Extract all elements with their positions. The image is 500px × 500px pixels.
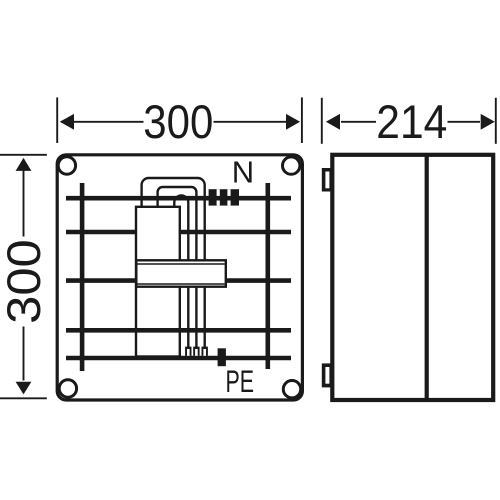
mounting hole bottom-left — [59, 380, 76, 397]
enclosure side view outline — [332, 155, 493, 400]
arrowhead left of 214 dim — [326, 114, 340, 130]
hinge tab upper (side view) — [322, 168, 333, 192]
busbar 3 (under crossbar) — [66, 278, 291, 283]
enclosure front view outline — [57, 155, 302, 400]
arrowhead up of vertical 300 dim — [16, 158, 32, 171]
dimension line 214 — [341, 121, 376, 123]
dimension extension line top of vertical 300 dim — [0, 154, 47, 156]
crossbar inner line bottom — [138, 283, 225, 285]
terminal block N (hatched) — [209, 189, 239, 205]
svg-text:214: 214 — [376, 95, 447, 148]
hinge tab lower (side view) — [322, 363, 333, 387]
terminal PE (black block) — [218, 348, 226, 366]
arrowhead down of vertical 300 dim — [16, 382, 32, 395]
crossbar plate (white over busbar 3 and cables) — [136, 260, 226, 286]
dimension extension line bottom of vertical 300 dim — [0, 397, 47, 399]
mounting hole top-left — [58, 157, 75, 174]
mounting hole bottom-right — [283, 381, 300, 398]
dimension extension line left of top 300 dim — [56, 97, 58, 143]
busbar 5 PE (over device body bottom) — [66, 356, 291, 361]
arrowhead left of 300 dim — [60, 114, 74, 130]
busbar 1 N (over loops) — [66, 196, 291, 201]
crossbar inner line top — [138, 263, 225, 265]
cable end pin 2 — [193, 347, 199, 356]
busbar support left vertical — [80, 183, 85, 371]
mounting hole top-right — [283, 157, 300, 174]
arrowhead right of 214 dim — [481, 114, 495, 130]
side view divider line (lid joint) — [425, 155, 429, 400]
cable end pin 3 — [202, 347, 208, 356]
busbar support right vertical — [265, 183, 270, 369]
dimension line 300 horizontal — [61, 121, 144, 123]
svg-text:300: 300 — [0, 239, 50, 324]
svg-text:300: 300 — [143, 95, 213, 148]
dimension extension line left of 214 dim — [321, 98, 323, 144]
svg-text:N: N — [232, 155, 254, 190]
wire loop middle — [158, 187, 197, 347]
busbar 2 (under device body) — [66, 230, 291, 235]
cable end pin 1 — [185, 347, 191, 356]
wire loop outer (cable bending over, goes down to rightmost pin) — [142, 178, 205, 347]
dimension line 300 vertical — [23, 159, 25, 237]
dimension extension line right of top 300 dim — [301, 97, 303, 143]
wire loop inner arch — [174, 195, 188, 347]
arrowhead right of 300 dim — [286, 114, 300, 130]
dimension extension line right of 214 dim — [495, 98, 497, 144]
busbar 4 (over device body) — [66, 328, 291, 333]
device body (white over busbar 2) — [136, 207, 180, 357]
svg-text:PE: PE — [226, 363, 255, 399]
